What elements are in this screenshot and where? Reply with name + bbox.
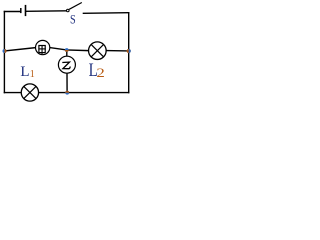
svg-text:2: 2: [96, 67, 104, 81]
svg-text:S: S: [70, 14, 76, 27]
svg-text:1: 1: [30, 69, 35, 80]
svg-text:L: L: [20, 64, 29, 80]
